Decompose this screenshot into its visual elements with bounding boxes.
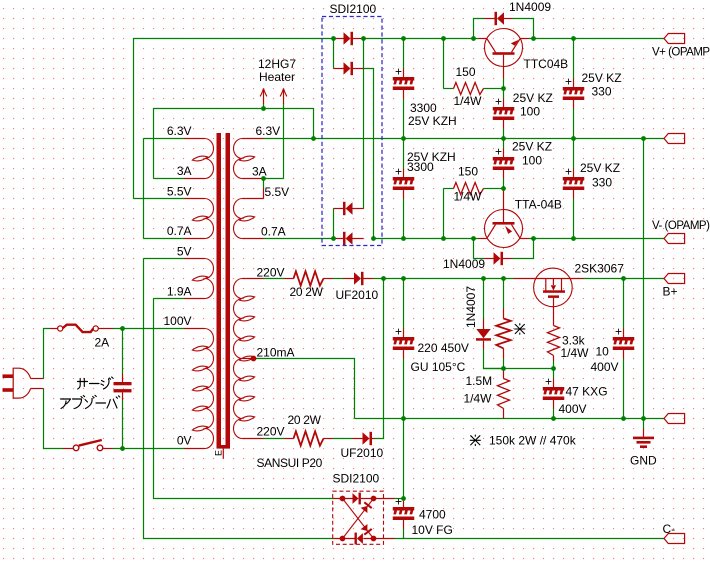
wire cap 330 upper bottom bbox=[573, 109, 575, 139]
svg-text:210mA: 210mA bbox=[257, 346, 295, 360]
wire V+ rail TTC04B emitter to V+ tag bbox=[529, 38, 664, 40]
wire cap 3300 lower top bbox=[403, 139, 405, 169]
bridge bottom leads bbox=[334, 499, 395, 539]
fuse 2A bbox=[50, 325, 113, 332]
wire 3A to 5.5V series link bbox=[263, 179, 265, 189]
wire fuse to 100V lead bbox=[113, 328, 185, 330]
diode bottom bridge D2 bbox=[355, 533, 363, 545]
diode bridge D2 bbox=[344, 62, 354, 75]
transformer SANSUI P20 core bbox=[217, 133, 231, 449]
svg-text:5.5V: 5.5V bbox=[265, 185, 290, 199]
capacitor 220 450V GU 105C bbox=[393, 325, 415, 359]
node 210mA center tap bbox=[251, 356, 257, 362]
transistor 2SK3067 MOSFET bbox=[514, 268, 584, 325]
wire 210mA center tap to ground rail bbox=[254, 359, 355, 419]
wire 1N4007 bottom to divider bbox=[484, 349, 504, 369]
wire mid rail to ground rail bbox=[643, 139, 645, 419]
svg-text:400V: 400V bbox=[559, 402, 587, 416]
wire cap 10 bottom bbox=[623, 359, 625, 419]
rectifier bridge SDI2100 bottom dashed box bbox=[333, 491, 384, 544]
wire 150 top to base node bbox=[494, 88, 504, 90]
wire 150k top bbox=[503, 279, 505, 309]
svg-text:220 450V: 220 450V bbox=[418, 341, 469, 355]
capacitor 10 400V bbox=[613, 325, 635, 359]
svg-text:Heater: Heater bbox=[259, 70, 295, 84]
capacitor 25V KZ 100 upper bbox=[493, 95, 515, 129]
diode bridge D4 bbox=[343, 232, 353, 245]
capacitor 25V KZ 100 lower bbox=[493, 145, 515, 179]
diode 1N4009 bottom bbox=[484, 252, 513, 265]
wire 150 bottom to V- rail bbox=[443, 189, 445, 239]
wire cap 100 bottom to TTA base bbox=[503, 179, 505, 189]
svg-text:330: 330 bbox=[592, 176, 612, 190]
svg-text:+: + bbox=[395, 65, 402, 79]
svg-text:400V: 400V bbox=[591, 360, 619, 374]
resistor 20 2W bottom bbox=[285, 431, 333, 445]
wire 6.3V-left to 0.7A-left series link bbox=[143, 139, 145, 239]
wire 5.5V left lead bbox=[134, 198, 185, 200]
wire ground to bottom bridge cap node bbox=[403, 419, 405, 499]
wire V- rail TTA-04B to V- tag bbox=[529, 238, 664, 240]
wire 5V winding to bottom bridge AC bbox=[144, 259, 334, 539]
wire TTC04B base node bbox=[503, 79, 505, 99]
wire 3A right to heater arrow 2 bbox=[264, 178, 284, 180]
wire heater arrow 1 shaft bbox=[263, 104, 265, 109]
wire bridge AC1 link bbox=[333, 39, 335, 69]
svg-text:100: 100 bbox=[522, 154, 542, 168]
svg-text:1/4W: 1/4W bbox=[561, 346, 590, 360]
svg-text:20 2W: 20 2W bbox=[288, 413, 322, 427]
note 150k 2W // 470k bbox=[470, 435, 480, 446]
svg-text:SANSUI P20: SANSUI P20 bbox=[257, 456, 323, 470]
wire 1N4009 bottom right bbox=[513, 239, 534, 259]
AC plug bbox=[3, 368, 44, 398]
svg-text:SDI2100: SDI2100 bbox=[330, 2, 377, 16]
svg-text:10: 10 bbox=[596, 345, 610, 359]
svg-text:3A: 3A bbox=[252, 165, 267, 179]
svg-text:+: + bbox=[395, 495, 402, 509]
svg-text:B+: B+ bbox=[663, 285, 678, 299]
wire cap 10 top bbox=[623, 279, 625, 329]
svg-text:3300: 3300 bbox=[407, 160, 434, 174]
svg-text:6.3V: 6.3V bbox=[167, 124, 192, 138]
svg-text:25V KZ: 25V KZ bbox=[512, 140, 552, 154]
svg-text:150: 150 bbox=[458, 165, 478, 179]
capacitor 25V KZ 330 lower bbox=[563, 165, 585, 199]
transistor TTC04B NPN bbox=[479, 29, 530, 79]
wire 0V mid rail bbox=[314, 138, 665, 140]
resistor 150 1/4W top bbox=[444, 83, 494, 95]
wire cap 47 top bbox=[553, 369, 555, 379]
svg-text:330: 330 bbox=[592, 85, 612, 99]
svg-text:150k 2W // 470k: 150k 2W // 470k bbox=[489, 434, 577, 448]
wire 5V left lead bbox=[144, 258, 185, 260]
svg-text:25V KZ: 25V KZ bbox=[580, 161, 620, 175]
svg-text:V+ (OPAMP): V+ (OPAMP) bbox=[652, 47, 710, 59]
wire cap 220 top bbox=[403, 279, 405, 329]
wire ground rail bbox=[355, 418, 665, 420]
switch bbox=[63, 440, 113, 451]
transistor TTA-04B PNP bbox=[479, 189, 530, 248]
svg-text:1.5M: 1.5M bbox=[466, 374, 493, 388]
resistor 150 1/4W bottom bbox=[444, 183, 494, 195]
svg-text:3300: 3300 bbox=[410, 101, 437, 115]
wire heater line from 3A lead bbox=[154, 109, 314, 179]
transformer left winding pins bbox=[185, 139, 205, 449]
svg-text:E: E bbox=[214, 450, 224, 456]
svg-text:25V KZH: 25V KZH bbox=[408, 114, 457, 128]
wire 6.3V right lead bbox=[264, 138, 314, 140]
svg-text:+: + bbox=[545, 375, 552, 389]
wire bridge V- vertical bbox=[364, 69, 374, 239]
svg-text:0.7A: 0.7A bbox=[167, 224, 192, 238]
heater terminal arrow 2 bbox=[280, 89, 287, 105]
wire 1.9A left lead bbox=[154, 298, 185, 300]
svg-text:SDI2100: SDI2100 bbox=[333, 472, 380, 486]
wire cap 3300 lower bottom bbox=[403, 199, 405, 239]
resistor 20 2W top bbox=[285, 271, 333, 285]
wire gate divider node bbox=[484, 368, 554, 370]
rectifier bridge SDI2100 top dashed box bbox=[322, 17, 382, 246]
winding 100V 0V primary left bbox=[192, 329, 213, 449]
wire bridge AC2 link bbox=[333, 209, 335, 239]
svg-text:25V KZ: 25V KZ bbox=[582, 71, 622, 85]
diode UF2010 top bbox=[344, 272, 374, 285]
wire cap 330 lower bottom bbox=[573, 199, 575, 239]
wire 2SK3067 source to B+ tag bbox=[584, 278, 665, 280]
kome mark at 150k resistor bbox=[515, 324, 525, 335]
svg-text:1/4W: 1/4W bbox=[454, 190, 483, 204]
output tag C- bbox=[664, 534, 685, 544]
capacitor 3300 25V KZH upper bbox=[393, 65, 415, 99]
wire 1.9A winding to bottom bridge AC bbox=[154, 299, 334, 499]
wire bottom rectifier join vertical bbox=[375, 279, 384, 439]
svg-text:V- (OPAMP): V- (OPAMP) bbox=[652, 220, 710, 232]
diode bottom bridge D4 bbox=[360, 524, 372, 536]
svg-text:1N4009: 1N4009 bbox=[443, 257, 485, 271]
svg-text:+: + bbox=[615, 325, 622, 339]
wire bridge V+ vertical bbox=[363, 39, 365, 209]
output tag GND rail bbox=[664, 414, 685, 424]
svg-text:+: + bbox=[495, 95, 502, 109]
svg-text:2SK3067: 2SK3067 bbox=[575, 262, 625, 276]
wire surge absorber top bbox=[122, 329, 124, 374]
wire raw V- rail bridge to TTA-04B bbox=[374, 238, 479, 240]
svg-text:1.9A: 1.9A bbox=[167, 285, 192, 299]
wire switch to 0V lead bbox=[113, 448, 185, 450]
wire cap 100 top to mid rail bbox=[503, 129, 505, 139]
svg-text:0.7A: 0.7A bbox=[261, 225, 286, 239]
wire cap 330 upper top bbox=[573, 39, 575, 79]
svg-text:100V: 100V bbox=[163, 314, 191, 328]
output tag V+ (OPAMP) bbox=[664, 34, 685, 44]
wire UF2010 top to B+ raw rail bbox=[373, 278, 384, 280]
wire cap 330 lower top bbox=[573, 139, 575, 169]
wire 1N4009 top right bbox=[513, 19, 534, 39]
wire 3A left lead bbox=[154, 178, 185, 180]
wire 20ohm to UF2010 bottom bbox=[333, 438, 353, 440]
winding 220V-210mA-220V right bbox=[234, 279, 255, 439]
svg-text:150: 150 bbox=[456, 65, 476, 79]
wire 150 top feed bbox=[443, 39, 445, 89]
output tag B+ bbox=[664, 274, 685, 284]
svg-text:47 KXG: 47 KXG bbox=[566, 385, 608, 399]
svg-text:10V FG: 10V FG bbox=[412, 523, 453, 537]
output tag 0V mid bbox=[664, 134, 685, 144]
diode bridge D1 bbox=[344, 32, 354, 45]
svg-text:UF2010: UF2010 bbox=[341, 446, 384, 460]
wire plug line to fuse bbox=[44, 329, 51, 379]
svg-text:TTA-04B: TTA-04B bbox=[515, 198, 562, 212]
svg-text:GND: GND bbox=[630, 454, 657, 468]
svg-text:100: 100 bbox=[520, 105, 540, 119]
wire gnd stub bbox=[643, 419, 645, 429]
wire cap 220 bottom bbox=[403, 359, 405, 419]
svg-text:+: + bbox=[565, 75, 572, 89]
capacitor 4700 10V FG bbox=[393, 495, 415, 529]
svg-text:5.5V: 5.5V bbox=[167, 185, 192, 199]
capacitor 25V KZ 330 upper bbox=[563, 75, 585, 109]
svg-text:TTC04B: TTC04B bbox=[524, 57, 569, 71]
wire C- rail bbox=[395, 538, 665, 540]
svg-text:220V: 220V bbox=[257, 266, 285, 280]
heater terminal arrow 1 bbox=[260, 89, 267, 105]
wire bottom bridge plus out bbox=[395, 498, 404, 500]
wire plug neutral to switch bbox=[44, 389, 64, 449]
capacitor surge absorber bbox=[114, 374, 132, 401]
ground symbol GND bbox=[633, 429, 654, 449]
resistor 1.5M 1/4W bbox=[498, 369, 510, 419]
transformer right winding pins bbox=[243, 139, 264, 439]
resistor 3.3k 1/4W bbox=[548, 326, 560, 362]
winding 6.3V 3A right bbox=[234, 139, 255, 179]
wire 150 bottom to base node bbox=[494, 188, 504, 190]
svg-text:+: + bbox=[395, 165, 402, 179]
winding 5.5V 0.7A right bbox=[234, 199, 255, 239]
wire heater arrow 2 shaft bbox=[283, 104, 285, 179]
winding 5V 1.9A left bbox=[192, 259, 213, 299]
svg-text:25V KZ: 25V KZ bbox=[513, 91, 553, 105]
transformer core earth lead E bbox=[222, 449, 224, 459]
wire AC1 from 5.5V winding to top bridge bbox=[134, 39, 334, 199]
wire cap 47 bottom bbox=[553, 409, 555, 419]
svg-text:6.3V: 6.3V bbox=[256, 124, 281, 138]
svg-text:UF2010: UF2010 bbox=[336, 288, 379, 302]
capacitor 25V KZH 3300 lower bbox=[393, 165, 415, 199]
wire 1N4009 top left bbox=[474, 19, 485, 39]
svg-text:+: + bbox=[495, 145, 502, 159]
diode 1N4009 top bbox=[484, 12, 513, 25]
svg-text:+: + bbox=[565, 165, 572, 179]
svg-text:GU 105°C: GU 105°C bbox=[411, 360, 466, 374]
svg-text:+: + bbox=[395, 325, 402, 339]
winding 6.3V 3A left bbox=[192, 139, 213, 179]
wire surge absorber bottom bbox=[122, 400, 124, 449]
wire raw V+ rail bridge to TTC04B bbox=[364, 38, 479, 40]
svg-text:1/4W: 1/4W bbox=[464, 392, 493, 406]
wire 0.7A right lead to bridge bbox=[264, 238, 334, 240]
wire 20ohm to UF2010 top bbox=[333, 278, 344, 280]
label surge absorber (katakana) bbox=[61, 377, 120, 409]
svg-text:220V: 220V bbox=[257, 425, 285, 439]
wire cap 3300 upper bottom bbox=[403, 99, 405, 139]
wire B+ raw rail bbox=[384, 278, 514, 280]
wire 0.7A left lead bbox=[144, 238, 185, 240]
wire 150k bottom bbox=[503, 359, 505, 369]
wire cap 3300 upper top bbox=[403, 39, 405, 69]
output tag V- (OPAMP) bbox=[664, 234, 685, 244]
svg-text:20 2W: 20 2W bbox=[290, 285, 324, 299]
svg-text:1N4007: 1N4007 bbox=[464, 286, 478, 328]
svg-text:3A: 3A bbox=[177, 164, 192, 178]
svg-text:2A: 2A bbox=[95, 336, 110, 350]
wire 6.3V left lead bbox=[144, 138, 185, 140]
resistor 150k 2W (kome) bbox=[496, 309, 510, 359]
wire 1N4007 top bbox=[483, 279, 485, 319]
wire mid rail to cap 100 bottom bbox=[503, 139, 505, 149]
diode bottom bridge D3 bbox=[360, 501, 372, 513]
winding 5.5V 0.7A left bbox=[192, 199, 213, 239]
wire 220V bottom lead bbox=[264, 438, 285, 440]
capacitor 47 KXG 400V bbox=[543, 375, 565, 409]
svg-text:C-: C- bbox=[663, 522, 676, 536]
wire 1N4009 bottom left bbox=[474, 239, 485, 259]
diode bridge D3 bbox=[343, 202, 353, 215]
bridge pin junctions bbox=[340, 496, 377, 542]
wire cap 4700 bottom bbox=[403, 529, 405, 539]
svg-text:1N4009: 1N4009 bbox=[509, 0, 551, 14]
svg-text:1/4W: 1/4W bbox=[454, 94, 483, 108]
diode UF2010 bottom bbox=[353, 432, 375, 445]
svg-text:5V: 5V bbox=[177, 245, 192, 259]
diode bottom bridge D1 bbox=[353, 493, 361, 505]
svg-text:4700: 4700 bbox=[419, 508, 446, 522]
svg-text:12HG7: 12HG7 bbox=[258, 57, 296, 71]
diode 1N4007 bbox=[476, 319, 491, 349]
wire 3.3k bottom bbox=[553, 361, 555, 369]
svg-text:0V: 0V bbox=[177, 434, 192, 448]
wire 220V top lead bbox=[264, 278, 285, 280]
